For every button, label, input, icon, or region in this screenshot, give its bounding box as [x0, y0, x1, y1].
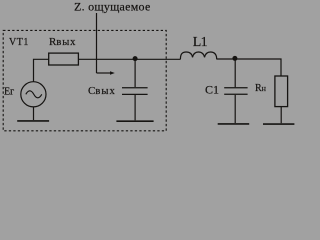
svg-text:VT1: VT1: [9, 37, 29, 48]
wire (resistor to inductor): [78, 58, 180, 60]
ground (C1): [218, 123, 250, 125]
ground (source): [17, 120, 49, 122]
wire (Rn bottom): [280, 107, 282, 124]
source Eg: [21, 82, 46, 107]
arrow (impedance looking into node): [97, 72, 112, 74]
capacitor Cvyh: [122, 87, 148, 89]
ground (Rn): [263, 123, 294, 125]
ground (Cvyh): [116, 120, 153, 122]
node Z leader line: [96, 13, 98, 73]
svg-text:L1: L1: [193, 35, 208, 50]
svg-text:Ег: Ег: [4, 87, 14, 98]
resistor Rn: [275, 76, 288, 107]
wire (node to Cvyh): [134, 59, 136, 87]
wire (C1 bottom): [234, 95, 236, 123]
svg-text:Свых: Свых: [88, 85, 116, 97]
svg-text:Z. ощущаемое: Z. ощущаемое: [74, 0, 151, 14]
wire (source top to resistor): [34, 59, 49, 81]
svg-text:С1: С1: [205, 83, 219, 97]
dashed box (transistor model boundary): [3, 30, 166, 130]
wire (node to C1): [234, 59, 236, 87]
svg-text:Rн: Rн: [255, 83, 267, 94]
junction node 1: [133, 56, 138, 61]
capacitor C1: [224, 87, 247, 89]
junction node 2: [232, 56, 237, 61]
wire (Cvyh bottom): [134, 95, 136, 120]
wire (source bottom): [33, 107, 35, 120]
svg-text:Rвых: Rвых: [49, 36, 76, 48]
wire (inductor to load corner): [217, 59, 281, 76]
resistor Rvyh: [49, 53, 79, 65]
inductor L1: [180, 52, 216, 59]
